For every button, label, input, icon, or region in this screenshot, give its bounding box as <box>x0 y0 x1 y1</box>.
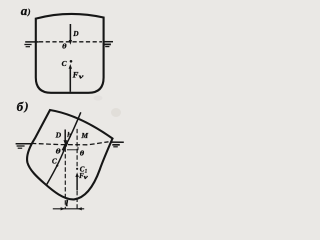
water surface mark right (figure b) <box>111 142 124 147</box>
faint scan smudge <box>111 108 121 117</box>
svg-text:а: а <box>21 3 28 18</box>
svg-text:1: 1 <box>85 170 87 175</box>
node C1 dot (figure b) <box>76 168 78 170</box>
svg-text:F: F <box>72 69 79 79</box>
water surface mark right (figure a) <box>103 42 113 47</box>
weight force arrow D (figure b) <box>64 130 68 146</box>
node C dot (figure b) <box>56 164 58 166</box>
weight force arrow D (figure a) <box>69 24 72 45</box>
buoyancy line of action dashed through C1 and M (figure b) <box>76 127 78 166</box>
water surface mark left (figure a) <box>24 42 38 47</box>
righting arm dimension l (figure b) <box>53 207 84 210</box>
node C / centre of buoyancy dot (figure a) <box>70 60 73 63</box>
svg-text:C: C <box>62 59 67 68</box>
hull outline tilted (figure b) <box>27 110 112 199</box>
svg-text:D: D <box>55 130 62 139</box>
waterline (dashed, figure b) <box>32 142 109 145</box>
svg-text:): ) <box>27 7 31 17</box>
water surface mark left (figure b) <box>16 144 32 148</box>
weight line of action dashed (figure b) <box>64 148 66 209</box>
heel angle mark (figure b) <box>67 147 78 150</box>
buoyancy force arrow Fv (figure b) <box>75 172 78 190</box>
svg-text:θ: θ <box>56 148 61 156</box>
svg-text:C: C <box>52 158 57 166</box>
svg-text:б: б <box>17 99 24 114</box>
svg-text:M: M <box>80 131 88 140</box>
svg-text:): ) <box>24 101 29 113</box>
node G dot (figure b) <box>64 144 67 147</box>
svg-text:v: v <box>79 74 84 81</box>
svg-text:D: D <box>72 29 79 38</box>
buoyancy force arrow Fv (figure a) <box>69 64 72 92</box>
svg-text:θ: θ <box>62 43 67 51</box>
hull outline (figure a) <box>36 14 104 93</box>
svg-text:v: v <box>84 175 89 181</box>
waterline (dashed, figure a) <box>39 41 102 43</box>
tilted centreline axis through C and M (figure b) <box>46 112 81 185</box>
svg-text:h: h <box>67 131 71 139</box>
svg-text:θ: θ <box>80 151 85 158</box>
